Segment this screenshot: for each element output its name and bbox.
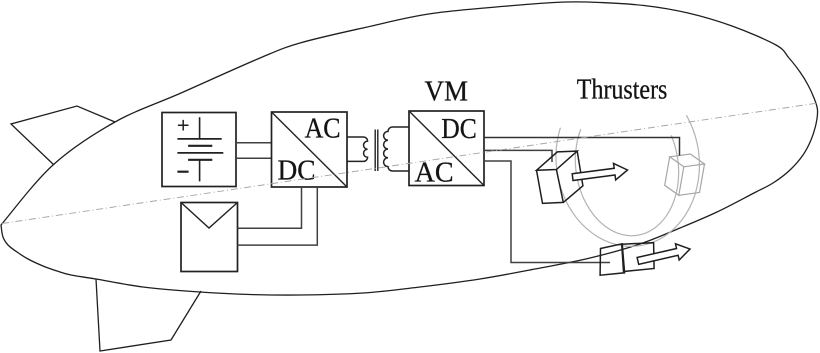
thruster mounting ring outer arc <box>556 115 700 246</box>
near thruster 3D box <box>537 151 583 203</box>
bottom thruster box <box>600 243 654 276</box>
wire VM to near thruster <box>484 150 552 162</box>
wire solar panel to AC-DC converter (upper) <box>238 187 302 228</box>
battery box <box>162 113 236 187</box>
solar panel box <box>181 203 238 272</box>
transformer secondary coil <box>384 127 409 171</box>
svg-text:VM: VM <box>425 76 469 107</box>
bottom thruster arrow <box>637 244 690 264</box>
AC-DC converter box <box>272 112 348 187</box>
wires battery to AC-DC converter <box>236 143 272 158</box>
wire solar panel to AC-DC converter (lower) <box>238 187 318 245</box>
AC-DC converter diagonal <box>272 112 348 187</box>
battery cell plates <box>177 117 223 181</box>
roll axis dash-dot line <box>2 103 818 224</box>
far-side thruster (grey box) <box>665 154 705 195</box>
lower tail fin <box>96 279 201 351</box>
DC-AC converter box (VM) <box>409 111 484 186</box>
battery symbol plus sign <box>178 120 189 131</box>
transformer primary coil <box>347 137 368 161</box>
wire VM to bottom thruster <box>484 161 610 263</box>
DC-AC converter diagonal <box>409 111 484 186</box>
battery symbol minus sign <box>177 171 188 173</box>
solar panel V mark <box>181 203 238 229</box>
svg-text:AC: AC <box>305 113 341 144</box>
svg-text:DC: DC <box>278 156 316 187</box>
wire VM to far-side thruster <box>484 138 680 156</box>
thruster mounting ring inner arc <box>575 129 678 236</box>
svg-text:DC: DC <box>441 114 477 145</box>
svg-text:Thrusters: Thrusters <box>577 75 668 106</box>
transformer core <box>375 130 378 172</box>
upper tail fin <box>11 106 115 165</box>
near thruster arrow <box>572 163 627 180</box>
